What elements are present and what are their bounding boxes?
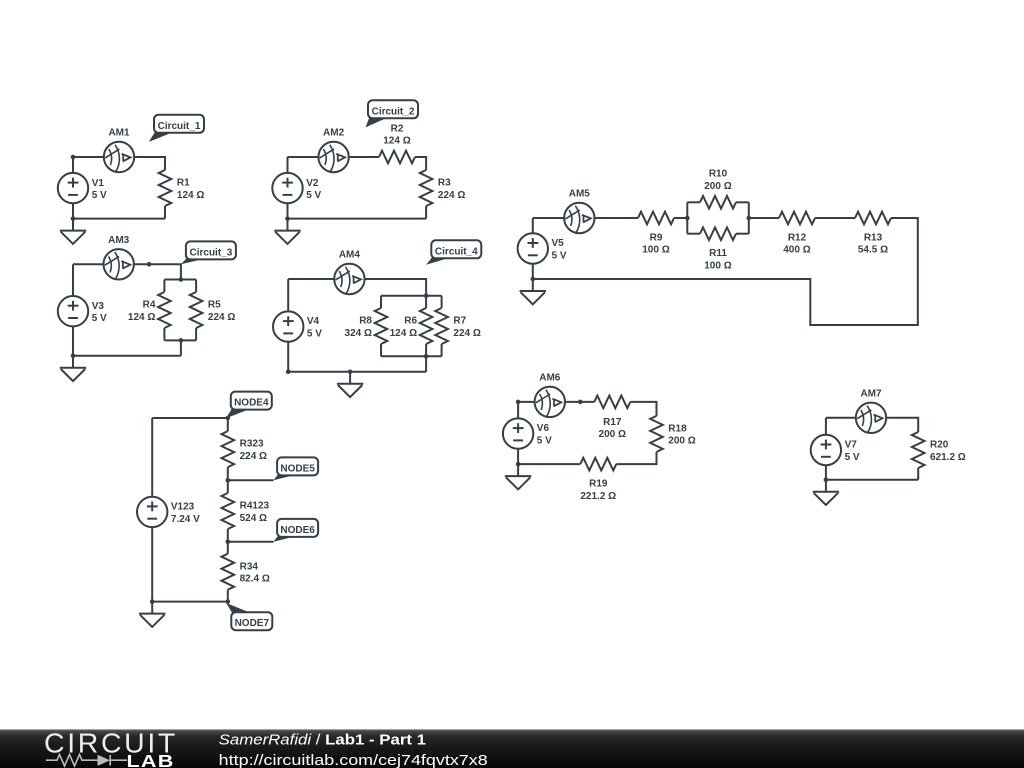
svg-text:224 Ω: 224 Ω — [453, 328, 480, 339]
svg-text:http://circuitlab.com/cej74fqv: http://circuitlab.com/cej74fqvtx7x8 — [219, 752, 488, 768]
svg-text:5 V: 5 V — [845, 452, 860, 463]
svg-text:224 Ω: 224 Ω — [240, 451, 267, 462]
svg-text:200 Ω: 200 Ω — [599, 429, 626, 440]
svg-text:R13: R13 — [864, 233, 883, 244]
svg-text:5 V: 5 V — [92, 313, 107, 324]
svg-text:R10: R10 — [709, 169, 728, 180]
svg-text:Circuit_1: Circuit_1 — [158, 121, 201, 132]
svg-text:200 Ω: 200 Ω — [704, 181, 731, 192]
svg-text:Circuit_4: Circuit_4 — [435, 246, 478, 257]
svg-text:R323: R323 — [240, 439, 264, 450]
svg-text:AM2: AM2 — [323, 128, 345, 139]
svg-text:82.4 Ω: 82.4 Ω — [240, 574, 270, 585]
svg-text:R5: R5 — [208, 300, 221, 311]
svg-text:200 Ω: 200 Ω — [668, 436, 695, 447]
svg-text:R18: R18 — [668, 424, 687, 435]
svg-text:124 Ω: 124 Ω — [177, 190, 204, 201]
svg-text:NODE5: NODE5 — [280, 463, 315, 474]
svg-text:V4: V4 — [307, 316, 320, 327]
svg-text:Circuit_2: Circuit_2 — [372, 106, 415, 117]
svg-text:V1: V1 — [92, 178, 105, 189]
svg-text:V123: V123 — [171, 502, 195, 513]
svg-text:100 Ω: 100 Ω — [704, 260, 731, 271]
svg-text:AM6: AM6 — [539, 372, 561, 383]
svg-text:5 V: 5 V — [537, 435, 552, 446]
svg-text:124 Ω: 124 Ω — [128, 312, 155, 323]
svg-text:124 Ω: 124 Ω — [383, 136, 410, 147]
svg-text:V5: V5 — [552, 238, 565, 249]
svg-text:V3: V3 — [92, 301, 105, 312]
svg-text:R12: R12 — [788, 233, 807, 244]
svg-text:AM7: AM7 — [860, 388, 882, 399]
svg-text:AM5: AM5 — [569, 189, 591, 200]
svg-text:5 V: 5 V — [306, 190, 321, 201]
svg-text:R17: R17 — [603, 417, 622, 428]
svg-text:400 Ω: 400 Ω — [783, 245, 810, 256]
svg-text:R11: R11 — [709, 248, 727, 259]
svg-text:R4: R4 — [143, 300, 156, 311]
svg-text:221.2 Ω: 221.2 Ω — [580, 491, 616, 502]
svg-text:R6: R6 — [404, 316, 417, 327]
svg-text:621.2 Ω: 621.2 Ω — [930, 452, 966, 463]
svg-text:324 Ω: 324 Ω — [345, 328, 372, 339]
svg-text:R3: R3 — [438, 178, 451, 189]
svg-text:R8: R8 — [359, 316, 372, 327]
svg-text:NODE7: NODE7 — [235, 618, 270, 629]
svg-text:R20: R20 — [930, 440, 949, 451]
svg-text:R1: R1 — [177, 178, 190, 189]
svg-text:SamerRafidi / Lab1 - Part 1: SamerRafidi / Lab1 - Part 1 — [219, 732, 426, 749]
svg-text:R34: R34 — [240, 561, 259, 572]
svg-text:Circuit_3: Circuit_3 — [190, 247, 233, 258]
svg-text:54.5 Ω: 54.5 Ω — [858, 245, 888, 256]
svg-text:AM4: AM4 — [339, 250, 361, 261]
svg-text:5 V: 5 V — [92, 190, 107, 201]
svg-text:100 Ω: 100 Ω — [642, 245, 669, 256]
svg-text:LAB: LAB — [127, 751, 175, 768]
svg-text:5 V: 5 V — [552, 250, 567, 261]
svg-text:V2: V2 — [306, 178, 319, 189]
svg-text:124 Ω: 124 Ω — [390, 328, 417, 339]
svg-text:V7: V7 — [845, 440, 858, 451]
svg-text:224 Ω: 224 Ω — [438, 190, 465, 201]
svg-text:R9: R9 — [650, 233, 663, 244]
svg-text:NODE6: NODE6 — [280, 525, 315, 536]
svg-text:R19: R19 — [589, 479, 608, 490]
svg-text:AM3: AM3 — [108, 235, 130, 246]
svg-text:AM1: AM1 — [108, 128, 130, 139]
svg-text:224 Ω: 224 Ω — [208, 312, 235, 323]
svg-text:524 Ω: 524 Ω — [240, 513, 267, 524]
svg-text:NODE4: NODE4 — [234, 398, 269, 409]
svg-text:R7: R7 — [453, 316, 466, 327]
svg-text:7.24 V: 7.24 V — [171, 514, 200, 525]
svg-text:R4123: R4123 — [240, 501, 270, 512]
svg-text:V6: V6 — [537, 423, 550, 434]
svg-text:5 V: 5 V — [307, 328, 322, 339]
svg-text:R2: R2 — [391, 123, 404, 134]
